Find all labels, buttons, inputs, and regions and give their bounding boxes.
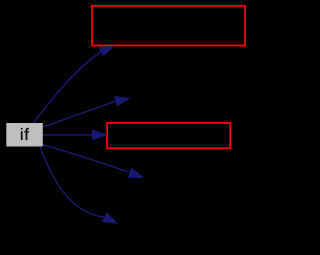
edge 1 (if to box1) [34, 52, 101, 123]
arrowhead 4 [128, 168, 144, 178]
arrowhead 2 [114, 96, 130, 107]
arrowhead 3 [92, 130, 108, 141]
edge 3 (if to box2) [43, 134, 93, 136]
node if (grey) [6, 123, 43, 147]
label if glyph f [25, 128, 29, 140]
edge 5 (if to hidden node C) [40, 147, 104, 217]
edge 4 (if to hidden node B) [43, 145, 130, 173]
label if [21, 128, 22, 140]
edge 2 (if to hidden node A) [43, 101, 115, 127]
arrowhead 1 [98, 46, 114, 57]
arrowhead 5 [102, 212, 118, 224]
node box2 (red, middle) [107, 123, 230, 148]
node box1 (red, top) [92, 6, 245, 46]
